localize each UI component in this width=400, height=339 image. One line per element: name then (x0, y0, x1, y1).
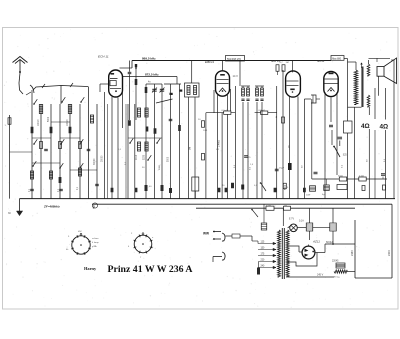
svg-text:14 V: 14 V (233, 74, 239, 78)
svg-text:869,5 kHz: 869,5 kHz (142, 56, 156, 60)
svg-text:591/468 kHz: 591/468 kHz (227, 58, 242, 61)
svg-text:AZ11: AZ11 (312, 240, 320, 244)
svg-text:Max 880: Max 880 (332, 58, 342, 60)
svg-text:872,5 kHz: 872,5 kHz (145, 72, 159, 76)
svg-text:0,1mΩ: 0,1mΩ (222, 110, 229, 112)
svg-text:5000: 5000 (285, 184, 287, 190)
svg-text:22045: 22045 (332, 261, 339, 263)
svg-text:245 V: 245 V (317, 274, 324, 277)
svg-text:10013: 10013 (38, 119, 40, 126)
svg-text:4Ω: 4Ω (380, 124, 389, 131)
svg-text:10W: 10W (306, 195, 310, 197)
svg-text:0,1A: 0,1A (299, 220, 304, 223)
svg-text:5230: 5230 (144, 154, 146, 160)
svg-text:E 7V: E 7V (289, 219, 294, 221)
svg-text:30000: 30000 (102, 155, 104, 162)
svg-text:0,1Ω: 0,1Ω (359, 176, 364, 178)
svg-text:5M: 5M (190, 147, 192, 150)
svg-text:WW: WW (203, 232, 209, 236)
svg-text:Prinz 41 W W 236 A: Prinz 41 W W 236 A (108, 264, 193, 275)
svg-text:ZF=468kHz: ZF=468kHz (43, 204, 60, 208)
svg-text:1,5M: 1,5M (266, 205, 271, 207)
svg-text:EBF11: EBF11 (205, 60, 215, 64)
svg-text:25µF: 25µF (279, 168, 285, 170)
svg-text:3,4mΩ: 3,4mΩ (218, 140, 220, 147)
svg-text:5mΩ: 5mΩ (338, 176, 343, 178)
svg-text:4 konp: 4 konp (92, 242, 99, 244)
svg-text:Erreg.: Erreg. (334, 276, 340, 279)
svg-text:10013: 10013 (67, 119, 69, 126)
svg-text:1M: 1M (286, 62, 289, 64)
svg-text:5000: 5000 (48, 116, 50, 122)
svg-text:schirm: schirm (92, 237, 99, 240)
svg-text:248V: 248V (351, 250, 354, 256)
svg-text:1M: 1M (284, 205, 287, 207)
svg-text:EL11: EL11 (318, 59, 325, 63)
svg-text:ECH 11: ECH 11 (98, 55, 109, 59)
svg-text:4Ω: 4Ω (361, 123, 370, 130)
svg-text:Harny: Harny (84, 266, 97, 271)
svg-text:g/3A: g/3A (92, 245, 97, 248)
svg-text:0013: 0013 (136, 154, 138, 160)
svg-text:5000: 5000 (168, 156, 170, 162)
